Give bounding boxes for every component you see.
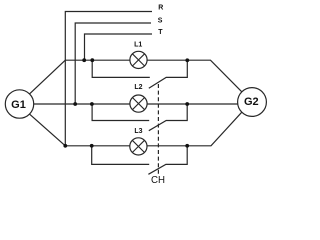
svg-text:CH: CH (151, 175, 165, 186)
svg-text:L3: L3 (134, 128, 142, 135)
svg-text:G1: G1 (11, 99, 26, 111)
svg-text:T: T (158, 29, 163, 36)
svg-text:L2: L2 (134, 84, 142, 91)
svg-text:R: R (158, 5, 163, 12)
svg-text:G2: G2 (244, 96, 259, 108)
svg-text:S: S (158, 17, 163, 24)
svg-text:L1: L1 (134, 42, 142, 49)
